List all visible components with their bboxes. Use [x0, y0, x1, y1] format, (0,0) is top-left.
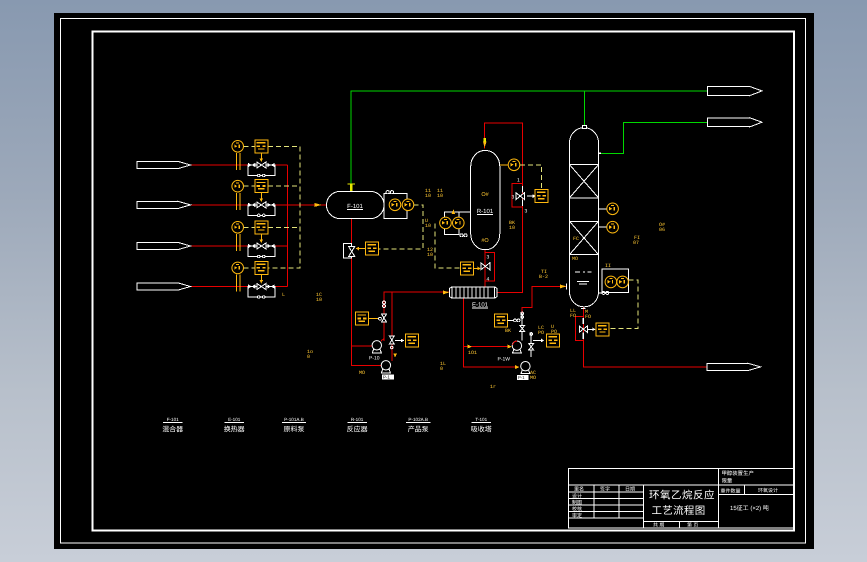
- svg-text:MO: MO: [530, 375, 536, 381]
- svg-text:10: 10: [425, 223, 431, 229]
- orifice FE-1: [236, 153, 241, 170]
- svg-text:F-101: F-101: [347, 203, 363, 210]
- pump P-102A: [498, 341, 522, 363]
- signal: row1 circle-square: [244, 145, 255, 147]
- absorber bottoms control valve: [579, 318, 587, 339]
- node: suction arrow P-102B: [515, 365, 519, 369]
- instrument LG-b on reactor: [453, 217, 465, 229]
- feed row instruments: orifices, FI circles, FIC squares, control valves: [232, 140, 275, 298]
- node: mixer top nozzle (green tie-in): [348, 184, 356, 191]
- svg-text:07: 07: [633, 240, 639, 246]
- inner drawing border frame: [93, 32, 795, 531]
- svg-text:MO: MO: [572, 256, 578, 262]
- svg-text:FC: FC: [573, 236, 579, 242]
- svg-text:吸收塔: 吸收塔: [471, 426, 492, 434]
- wire: E-101 bottom drain to product pump suction header: [463, 298, 519, 367]
- label T-101 absorber: [471, 417, 492, 434]
- title block main vertical divider: [718, 469, 720, 528]
- controller FIC-3: [255, 221, 268, 234]
- packing section 2 with X: [570, 221, 599, 254]
- signal: mixer gauges to drain valve: [379, 205, 423, 249]
- exchanger E-101 shell: [450, 287, 497, 309]
- svg-text:3: 3: [487, 255, 490, 261]
- orifice FE-3: [236, 234, 241, 251]
- instrument FI-1: [232, 141, 244, 153]
- svg-text:10: 10: [509, 225, 515, 231]
- svg-text:混合器: 混合器: [162, 426, 183, 434]
- wire: green overhead gas header: [351, 91, 707, 184]
- signal: row2 circle-square: [244, 185, 255, 187]
- wire: feed line 2 to mixer: [191, 204, 328, 206]
- node: feed inlet arrow 3: [137, 242, 191, 249]
- actuator stem 4: [260, 274, 264, 283]
- right part horizontals: [719, 484, 795, 486]
- svg-text:O#: O#: [481, 192, 489, 198]
- controller FIC-1: [255, 140, 268, 153]
- svg-text:P-1: P-1: [518, 375, 525, 380]
- vessel R-101 reactor column: [471, 151, 500, 250]
- node: flow arrow into mixer: [315, 203, 322, 207]
- node: suction arrow on pump header: [468, 345, 472, 349]
- actuator stem 1: [260, 153, 264, 162]
- wire: absorber bottoms line to outlet: [583, 307, 707, 367]
- actuator stem 3: [260, 234, 264, 243]
- svg-text:06: 06: [659, 227, 665, 233]
- signal: row2 square-header: [268, 185, 300, 187]
- svg-text:3: 3: [525, 209, 528, 215]
- signal: absorber analyser to LV controller: [609, 280, 638, 329]
- node: feed inlet arrow 4: [137, 283, 191, 290]
- node: absorber bottom nozzle: [581, 307, 586, 309]
- svg-text:反应器: 反应器: [347, 426, 368, 434]
- node: drain tick below P-101B stack: [393, 354, 397, 358]
- svg-text:T-101: T-101: [475, 417, 487, 422]
- svg-text:4: 4: [487, 277, 490, 283]
- svg-text:10: 10: [425, 193, 431, 199]
- svg-text:1O1: 1O1: [468, 350, 477, 356]
- P-102 discharge manifold white stacks: [520, 312, 534, 357]
- svg-text:重件数量: 重件数量: [721, 488, 741, 495]
- control valve station 4: [248, 284, 275, 299]
- instrument LG-a on reactor: [440, 217, 452, 229]
- svg-text:FO: FO: [570, 313, 576, 319]
- wire: feed line 3: [191, 245, 288, 247]
- control valve station 3: [248, 243, 275, 258]
- orifice FE-4: [236, 275, 241, 292]
- title block outer box: [569, 469, 795, 528]
- wire: feed collecting header: [287, 165, 289, 287]
- svg-text:日期: 日期: [625, 486, 635, 493]
- signal: reactor gauge to bottom valve controller: [435, 223, 460, 268]
- node: feed inlet arrow 2: [137, 201, 191, 208]
- svg-text:限量: 限量: [722, 478, 733, 485]
- wire: reactor feed riser from E-101 outlet: [485, 123, 523, 292]
- svg-text:B-2: B-2: [539, 274, 548, 280]
- actuator arrow mixer drain: [356, 247, 366, 251]
- svg-text:P-1W: P-1W: [498, 357, 511, 363]
- svg-text:#O: #O: [481, 238, 489, 244]
- node: suction arrow P-102A: [508, 345, 512, 349]
- orifice FE-2: [236, 193, 241, 210]
- label P-102A.B product pump: [406, 417, 431, 434]
- instrument FI-3: [232, 222, 244, 234]
- label E-101 exchanger: [224, 417, 245, 434]
- wire: pump P-101A suction branch: [352, 345, 373, 347]
- controller PC square on riser: [535, 190, 548, 203]
- signal: row3 square-header: [268, 226, 300, 228]
- svg-text:环氧乙烷反应: 环氧乙烷反应: [649, 490, 715, 502]
- node: flow arrow into absorber bottom inlet: [560, 284, 567, 290]
- svg-text:E-101: E-101: [472, 302, 489, 309]
- node: flow arrow into E-101: [443, 290, 449, 294]
- svg-text:第 页: 第 页: [687, 522, 698, 529]
- wire: product pump P-102A suction branch: [463, 346, 510, 348]
- instrument AI-a absorber: [605, 276, 617, 288]
- svg-text:10: 10: [437, 193, 443, 199]
- svg-text:环氧设计: 环氧设计: [758, 487, 778, 494]
- svg-text:P-101A.B: P-101A.B: [284, 417, 304, 422]
- white arrow absorber valve to LC: [588, 328, 596, 332]
- node: absorber gas outlet nozzle: [599, 152, 602, 154]
- svg-text:PO: PO: [538, 330, 544, 336]
- svg-text:P-10: P-10: [369, 356, 380, 362]
- wire: reactor bottom outlet to E-101 shell: [484, 250, 486, 287]
- svg-text:0: 0: [440, 366, 443, 372]
- svg-text:R-101: R-101: [477, 208, 494, 215]
- gauge box on mixer outlet: [384, 191, 407, 219]
- svg-text:校核: 校核: [572, 505, 582, 512]
- reactor level gauge box: [445, 212, 471, 237]
- controller square right of P-102: [533, 334, 560, 347]
- svg-text:15征工 (×2) 吨: 15征工 (×2) 吨: [730, 504, 769, 512]
- wire: green drop to absorber T-101 top: [583, 91, 585, 129]
- vessel T-101 absorber column: [570, 126, 599, 307]
- label P-101A.B feed pump: [282, 417, 306, 434]
- wire: absorber bottoms valve bypass loop: [575, 316, 583, 340]
- P-101 discharge manifold valves: [382, 301, 395, 349]
- svg-text:R-101: R-101: [351, 417, 364, 422]
- svg-text:1: 1: [517, 178, 520, 184]
- title block left table horizontals: [569, 484, 719, 486]
- svg-text:工艺流程图: 工艺流程图: [652, 505, 706, 517]
- wire: pump P-101B discharge riser: [391, 292, 393, 361]
- instrument TI-a right of absorber: [599, 203, 619, 215]
- node: bottoms outlet arrow 3: [707, 363, 761, 370]
- label R-101 reactor: [347, 417, 368, 434]
- svg-text:P-1: P-1: [383, 375, 390, 380]
- controller FIC-2: [255, 180, 268, 193]
- controller FIC-4: [255, 261, 268, 274]
- svg-text:设计: 设计: [572, 492, 582, 499]
- svg-text:II: II: [605, 263, 611, 269]
- svg-text:MO: MO: [359, 370, 365, 376]
- absorber side analyser box: [599, 269, 629, 294]
- node: product gas outlet arrow 2: [708, 118, 763, 127]
- pump P-101B: [381, 361, 394, 380]
- instrument TI on mixer: [402, 199, 414, 211]
- wire: feed line 1: [191, 164, 288, 166]
- control valve station 1: [248, 162, 275, 177]
- tag near P-101B: [359, 370, 365, 376]
- instrument AI-b absorber: [617, 276, 629, 288]
- svg-text:P-102A.B: P-102A.B: [408, 417, 428, 422]
- svg-text:原料泵: 原料泵: [284, 426, 305, 434]
- svg-text:共 期: 共 期: [653, 522, 664, 529]
- svg-text:换热器: 换热器: [224, 426, 245, 434]
- node: feed inlet arrow 1: [137, 161, 191, 168]
- svg-text:审定: 审定: [572, 512, 582, 519]
- instrument TI-b right of absorber: [599, 221, 619, 233]
- node: vent outlet arrow 1: [708, 86, 763, 95]
- wire: pump P-101 discharge riser: [384, 292, 450, 341]
- svg-text:产品泵: 产品泵: [408, 426, 429, 434]
- instrument PI on mixer: [389, 199, 401, 211]
- reactor bottom control valve: [481, 255, 490, 283]
- svg-text:F-101: F-101: [167, 417, 179, 422]
- mixer drain valve station: [344, 244, 355, 259]
- instrument PI on riser: [500, 159, 520, 171]
- title cell bottom row: [644, 520, 719, 522]
- signal: row1 square-header: [268, 145, 300, 147]
- signal: riser PI to PC square: [520, 165, 542, 190]
- packing section 1 with X: [570, 165, 599, 198]
- svg-text:签字: 签字: [600, 486, 610, 493]
- controller LC square absorber: [596, 323, 609, 336]
- pump P-101A: [369, 339, 384, 362]
- actuator arrow reactor bottom valve: [474, 267, 481, 271]
- instrument FI-4: [232, 262, 244, 274]
- white arrow riser valve to PC: [527, 194, 536, 198]
- wire: mixer bottom drain down to pump suctions: [352, 219, 382, 365]
- controller square right of P-101B: [395, 334, 419, 347]
- controller square at mixer drain: [366, 242, 379, 255]
- svg-text:甲醇装置生产: 甲醇装置生产: [722, 470, 754, 477]
- wire: reactor bottom valve bypass loop: [485, 253, 494, 282]
- wire: product pump discharge to absorber: [522, 286, 566, 313]
- riser pressure control valve: [512, 178, 528, 215]
- control valve station 2: [248, 202, 275, 217]
- svg-text:制图: 制图: [572, 499, 582, 506]
- label F-101 mixer: [162, 417, 183, 434]
- svg-text:3: 3: [512, 195, 515, 201]
- svg-text:L: L: [282, 292, 285, 298]
- svg-text:10: 10: [427, 252, 433, 258]
- signal stub from mixer TI: [414, 204, 417, 206]
- svg-text:BK: BK: [505, 328, 511, 334]
- node: small yellow pointer above gauge box: [452, 209, 456, 214]
- signal: feed instruments header: [268, 146, 300, 268]
- vessel F-101 mixer drum: [327, 191, 385, 218]
- wire: feed line 4: [191, 286, 288, 288]
- svg-text:0: 0: [307, 354, 310, 360]
- node: reactor feed arrow: [483, 138, 487, 148]
- svg-text:10: 10: [316, 297, 322, 303]
- svg-text:里名: 里名: [574, 486, 584, 493]
- instrument FI-2: [232, 180, 244, 192]
- controller square at reactor bottom: [461, 262, 474, 275]
- wire: riser control valve bypass loop: [512, 184, 523, 208]
- controller square left of P-102: [495, 314, 520, 327]
- wire: green absorber overhead to outlet 2: [601, 122, 708, 153]
- pump P-102B: [517, 362, 530, 381]
- controller square left of P-101 riser: [356, 312, 382, 325]
- actuator stem 2: [260, 193, 264, 202]
- level marks inside absorber bottom: [575, 272, 592, 284]
- svg-text:E-101: E-101: [228, 417, 241, 422]
- svg-text:FO: FO: [585, 314, 591, 320]
- svg-text:PO: PO: [551, 329, 557, 335]
- svg-text:1r: 1r: [490, 384, 496, 390]
- signal: row3 circle-square: [244, 226, 255, 228]
- signal: row4 circle-square: [244, 267, 255, 269]
- title block left table verticals: [593, 485, 595, 518]
